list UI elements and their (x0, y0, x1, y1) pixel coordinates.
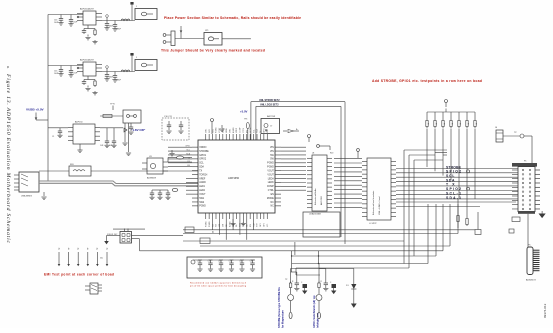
svg-text:SW2: SW2 (212, 129, 214, 133)
svg-text:VOUT: VOUT (199, 194, 206, 196)
svg-text:LEDA: LEDA (268, 177, 274, 180)
svg-text:C32: C32 (208, 261, 211, 263)
svg-text:SCL: SCL (199, 163, 204, 165)
svg-text:TP5: TP5 (244, 119, 247, 121)
svg-text:J: J (136, 6, 137, 8)
svg-text:PGND: PGND (267, 167, 274, 169)
svg-text:C35: C35 (239, 261, 242, 263)
svg-text:SDA: SDA (199, 166, 204, 169)
svg-text:Figure 13. ADP1650 Evaluation: Figure 13. ADP1650 Evaluation Motherboar… (5, 73, 11, 243)
svg-text:SREKR JMP: SREKR JMP (107, 234, 118, 236)
svg-text:SW1: SW1 (199, 198, 205, 200)
svg-text:mkr: mkr (100, 258, 103, 260)
svg-text:SW: SW (216, 224, 218, 227)
svg-text:VIN: VIN (270, 151, 274, 153)
svg-text:U. SP3T: U. SP3T (369, 223, 377, 225)
svg-text:AGND: AGND (228, 221, 231, 227)
svg-text:VIO: VIO (267, 223, 269, 227)
svg-text:GP1: GP1 (260, 223, 262, 227)
svg-text:PGND: PGND (209, 221, 211, 227)
svg-text:EN: EN (271, 194, 275, 196)
svg-text:C1: C1 (52, 136, 54, 138)
svg-text:B+: B+ (296, 129, 298, 131)
svg-text:ADG3308: ADG3308 (320, 195, 323, 205)
svg-text:U4: U4 (312, 153, 314, 155)
svg-text:left/right smt: left/right smt (317, 313, 320, 328)
svg-text:STR: STR (257, 223, 259, 227)
svg-text:VOUT: VOUT (267, 170, 274, 172)
svg-text:COMP: COMP (267, 186, 274, 188)
svg-text:J: J (136, 57, 137, 59)
svg-text:Bidirectional level translator: Bidirectional level translator (372, 190, 375, 215)
svg-text:LED2: LED2 (199, 190, 205, 192)
svg-text:CTRL: CTRL (243, 128, 245, 133)
svg-text:VUSB +5.0V: VUSB +5.0V (26, 108, 45, 112)
svg-text:Bidirectional Buffer: Bidirectional Buffer (314, 188, 317, 205)
svg-text:AGND: AGND (232, 127, 235, 133)
svg-text:GPIO2: GPIO2 (199, 159, 207, 161)
svg-text:VDD: VDD (267, 128, 269, 133)
svg-text:SW1: SW1 (209, 129, 211, 133)
svg-text:C36: C36 (250, 261, 253, 263)
svg-text:GPIO: GPIO (264, 128, 266, 133)
svg-text:Place Power Section Similar to: Place Power Section Similar to Schematic… (164, 16, 301, 20)
svg-text:C31: C31 (197, 261, 200, 263)
svg-text:U4 ADG3308: U4 ADG3308 (309, 213, 322, 216)
svg-text:LED1: LED1 (199, 186, 205, 188)
svg-text:C7: C7 (270, 126, 272, 128)
svg-text:This Jumper Should be Very cle: This Jumper Should be Very clearly marke… (161, 48, 265, 52)
svg-text:R20: R20 (330, 153, 333, 155)
svg-text:"1.8V OR": "1.8V OR" (131, 128, 146, 132)
svg-text:NC: NC (270, 202, 274, 204)
svg-text:USB-MINI B: USB-MINI B (21, 196, 33, 198)
svg-text:VREF: VREF (236, 127, 238, 133)
svg-text:UNL LDO2 SET2: UNL LDO2 SET2 (260, 104, 279, 107)
svg-text:ADP150: ADP150 (75, 121, 83, 124)
svg-text:C10 C11: C10 C11 (164, 116, 173, 118)
svg-text:EMI Test point at each corner: EMI Test point at each corner of boad (44, 273, 114, 277)
svg-text:MODE: MODE (267, 198, 274, 200)
svg-text:LEDK: LEDK (226, 127, 228, 133)
svg-text:UNL STROB SET2: UNL STROB SET2 (259, 99, 280, 102)
svg-text:VIN1: VIN1 (205, 129, 207, 133)
svg-text:C33: C33 (218, 261, 221, 263)
svg-text:TX: TX (199, 170, 202, 172)
svg-text:MODE: MODE (250, 127, 252, 133)
svg-text:PGND: PGND (199, 206, 206, 208)
svg-text:ADP1650: ADP1650 (228, 176, 240, 180)
svg-text:NC: NC (270, 206, 274, 208)
svg-text:LEDK: LEDK (268, 182, 274, 184)
svg-text:+5.0V: +5.0V (240, 110, 248, 114)
svg-text:PGND: PGND (216, 127, 218, 133)
svg-text:CTRL: CTRL (268, 190, 275, 192)
svg-text:VIN2: VIN2 (229, 129, 231, 133)
svg-text:ADP2114ACPZ: ADP2114ACPZ (80, 59, 95, 62)
svg-text:for Magnesium: for Magnesium (282, 309, 285, 328)
svg-text:PGND: PGND (205, 221, 207, 227)
svg-text:Add STROBE, GPIO1 etc. testpoi: Add STROBE, GPIO1 etc. testpoints in a r… (372, 79, 482, 83)
svg-text:COMP: COMP (240, 127, 242, 133)
svg-text:STROBE: STROBE (199, 151, 209, 153)
svg-text:ADM6828: ADM6828 (147, 177, 157, 180)
svg-text:VOUT: VOUT (267, 174, 274, 176)
svg-text:GPIO: GPIO (185, 146, 190, 148)
svg-text:TP R: TP R (110, 104, 115, 106)
svg-text:BAT TER: BAT TER (267, 115, 276, 118)
svg-text:ADM200 B: ADM200 B (526, 279, 536, 282)
svg-text:VREF: VREF (199, 178, 206, 180)
svg-text:SCL: SCL (186, 149, 190, 151)
svg-text:AGND: AGND (199, 181, 206, 184)
svg-text:Recommend use C0402 capacitors: Recommend use C0402 capacitors behind ea… (190, 282, 247, 285)
svg-text:VDDIO: VDDIO (199, 147, 206, 149)
svg-text:TORCH: TORCH (199, 174, 207, 176)
svg-text:GP2: GP2 (264, 223, 266, 227)
svg-text:SW2: SW2 (199, 202, 205, 204)
svg-text:GPIO1: GPIO1 (199, 155, 207, 157)
svg-text:VIN: VIN (270, 147, 274, 149)
svg-text:09374-013: 09374-013 (543, 303, 547, 318)
svg-text:pin of U1 when space permits f: pin of U1 when space permits for best de… (190, 285, 247, 288)
svg-text:USB = HDMI = Level: USB = HDMI = Level (379, 196, 381, 215)
svg-text:C34: C34 (229, 261, 232, 263)
svg-text:PGND: PGND (267, 163, 274, 165)
svg-text:SCL: SCL (253, 129, 255, 133)
svg-text:ADP2114ACPZ: ADP2114ACPZ (80, 8, 95, 11)
